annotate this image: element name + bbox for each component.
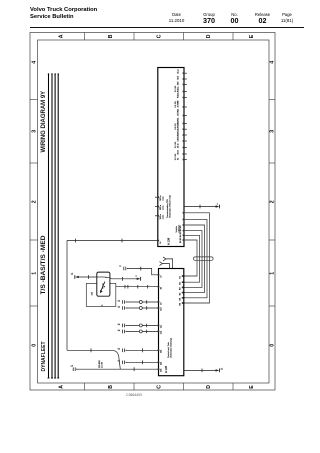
svg-text:E: E — [249, 34, 255, 38]
svg-text:30-fe: 30-fe — [178, 149, 180, 155]
svg-text:110: 110 — [160, 307, 162, 311]
pin left 8 of A135 — [158, 361, 163, 365]
svg-text:31: 31 — [178, 157, 180, 160]
pin left 4 of A135 — [158, 307, 163, 311]
pin left ant2 of A138 — [155, 204, 164, 210]
svg-text:15: 15 — [71, 273, 74, 275]
arrow terminal 1 — [216, 203, 220, 208]
pin 2 of A138 with label 504 — [178, 75, 187, 80]
label A135 — [164, 365, 168, 373]
inline connector twisted pair B2 — [118, 330, 127, 334]
svg-text:111: 111 — [160, 324, 162, 328]
svg-text:0.5 GN: 0.5 GN — [175, 141, 177, 148]
pin left ant1 of A138 — [155, 195, 164, 201]
svg-text:D: D — [206, 385, 212, 389]
wire harness bus 3 — [54, 73, 56, 378]
svg-text:bb: bb — [118, 324, 121, 326]
svg-text:0.5 GN: 0.5 GN — [175, 123, 177, 130]
zone row numbers left 4 3 2 1 0 — [32, 61, 38, 347]
pin 6 of A138 with label J1708B — [175, 100, 187, 108]
wire to A135 pin 7 — [126, 348, 159, 352]
svg-text:15-fe: 15-fe — [178, 143, 180, 149]
pin 13 of A138 with label 30-fe — [178, 149, 187, 155]
svg-text:bb: bb — [118, 330, 121, 332]
svg-text:0.5 GN: 0.5 GN — [175, 153, 177, 160]
pin left 3 of A135 — [158, 301, 163, 305]
wire relay K1 output to arrow — [111, 277, 138, 281]
pin 7 of A138 with label J1708A — [177, 108, 187, 116]
svg-text:T/S -BAS/T/S -MED: T/S -BAS/T/S -MED — [40, 235, 47, 294]
pin left 9 of A135 — [158, 368, 163, 372]
wire antenna feed to A135 corner pin — [127, 267, 158, 275]
pin left 1 of A135 — [158, 274, 163, 278]
svg-text:J1708A: J1708A — [177, 108, 180, 116]
svg-text:coax: coax — [162, 206, 164, 210]
svg-text:19: 19 — [160, 302, 162, 305]
svg-text:4: 4 — [32, 61, 38, 64]
svg-text:A: A — [59, 34, 65, 38]
document number — [120, 393, 148, 397]
svg-text:1: 1 — [270, 272, 276, 275]
header Group column — [197, 12, 221, 17]
svg-text:(Telematics Vehicle Unit): (Telematics Vehicle Unit) — [169, 195, 172, 218]
svg-text:CAN/net: CAN/net — [177, 224, 180, 232]
svg-text:17: 17 — [160, 274, 162, 277]
svg-text:18: 18 — [160, 286, 162, 289]
svg-text:B6: B6 — [179, 302, 181, 305]
relay K1 box — [97, 272, 110, 296]
inline connector on ground wire B52 — [71, 366, 78, 371]
title WIRING DIAGRAM 9Y — [41, 91, 47, 153]
wire bundle 5 A138 to A135 — [183, 235, 200, 284]
pin right 4 of A135 — [179, 292, 183, 295]
wire twisted pair B1 to A135 — [126, 324, 159, 328]
header Page column — [275, 12, 299, 17]
svg-text:B3: B3 — [179, 287, 181, 290]
svg-text:bb: bb — [118, 306, 121, 308]
zone column letters top A B C D E — [59, 34, 256, 38]
svg-text:114: 114 — [160, 361, 162, 365]
header company name — [30, 7, 97, 22]
svg-text:C: C — [157, 34, 163, 38]
pin 10 of A138 with label CAN1L — [177, 128, 187, 136]
svg-text:0.5 GN: 0.5 GN — [175, 101, 177, 108]
svg-text:C: C — [157, 385, 163, 389]
svg-text:a4: a4 — [71, 366, 74, 368]
svg-text:231: 231 — [92, 291, 94, 295]
pin 8 of A138 with label CAN2L — [177, 117, 187, 125]
svg-text:B2: B2 — [179, 281, 181, 284]
svg-text:RaDa-: RaDa- — [178, 86, 180, 92]
svg-text:cc: cc — [119, 266, 121, 268]
inline connector twisted pair B1 — [118, 324, 127, 328]
inline connector twisted pair A1 — [118, 300, 127, 304]
svg-text:3: 3 — [32, 130, 38, 133]
pin 12 of A138 with label 15-fe — [175, 141, 187, 148]
wire from A138 pin to arrow terminal 1 — [184, 205, 217, 209]
header Release column — [251, 12, 275, 17]
antenna W2 symbol — [163, 257, 173, 269]
wire arrow to relay K1 — [79, 275, 97, 279]
wire from A135 to arrow terminal 21 — [184, 369, 217, 373]
svg-text:A 135: A 135 — [164, 365, 168, 373]
pin right 1 of A135 — [179, 275, 183, 278]
header Date column — [165, 12, 189, 17]
header No column — [223, 12, 247, 17]
svg-text:CAN1H: CAN1H — [177, 134, 180, 142]
connector housing box 231 — [86, 283, 116, 306]
svg-text:0: 0 — [32, 344, 38, 347]
relay K1 internals — [97, 277, 112, 294]
svg-text:113: 113 — [160, 349, 162, 353]
arrow terminal 21 — [216, 368, 224, 372]
zone column letters bottom A B C D E — [59, 385, 256, 389]
pin right 3 of A135 — [179, 287, 183, 290]
control unit A135 box — [159, 269, 184, 376]
svg-text:bb: bb — [118, 300, 121, 302]
pin left 7 of A135 — [158, 349, 163, 353]
wire bundle 1 A138 to A135 — [183, 212, 210, 304]
svg-text:RaDa+: RaDa+ — [178, 91, 180, 98]
pin 3 of A138 with label 505 — [178, 81, 187, 86]
wire twisted pair B2 to A135 — [126, 330, 159, 334]
pin 14 of A138 with label 31 — [175, 153, 187, 160]
arrow terminal into relay — [71, 273, 79, 279]
svg-text:coax: coax — [162, 215, 164, 219]
wire harness bus 4 — [57, 73, 59, 378]
svg-text:(Telematics Gateway): (Telematics Gateway) — [169, 338, 172, 358]
svg-text:0: 0 — [270, 344, 276, 347]
svg-text:B: B — [108, 385, 114, 389]
svg-text:0.5 GN: 0.5 GN — [175, 85, 177, 92]
svg-text:4: 4 — [270, 61, 276, 64]
svg-text:1.5 SB: 1.5 SB — [102, 361, 104, 368]
svg-text:bb: bb — [118, 361, 121, 363]
pin left ant3 of A138 — [155, 213, 164, 219]
inline connector wire to A135 pin 8 — [118, 361, 127, 365]
svg-text:J1708B: J1708B — [178, 100, 180, 108]
svg-text:3: 3 — [270, 130, 276, 133]
wire harness bus 1 — [48, 73, 50, 378]
wire harness bus 2 — [51, 73, 53, 378]
svg-text:D: D — [206, 34, 212, 38]
inline connector twisted pair A2 — [118, 306, 127, 310]
title DYNAFLEET — [41, 342, 47, 372]
wire vertical drop from node — [66, 241, 68, 351]
wire housing 231 to A135 pin 2 — [116, 285, 159, 289]
pin 5 of A138 with label RaDa+ — [178, 91, 187, 99]
wire twisted pair A2 to A135 — [126, 306, 159, 310]
pin 11 of A138 with label CAN1H — [177, 134, 187, 142]
svg-text:B5: B5 — [179, 297, 181, 300]
wire bundle 2 A138 to A135 — [183, 219, 207, 299]
svg-text:CAN2H: CAN2H — [177, 122, 180, 130]
svg-text:bb: bb — [118, 349, 121, 351]
wire lower run with bend — [67, 348, 120, 369]
wire to A135 pin 8 — [126, 360, 159, 364]
control unit A138 box — [158, 68, 184, 247]
drawing frame outer border — [30, 33, 275, 391]
inline connector wire to A135 pin 7 — [118, 349, 127, 353]
svg-text:E: E — [249, 385, 255, 389]
svg-text:115: 115 — [160, 368, 162, 372]
svg-text:B: B — [108, 34, 114, 38]
pin right 6 of A135 — [179, 302, 183, 305]
pin 1 of A138 with label 31-A — [177, 69, 187, 74]
svg-text:WIRING DIAGRAM 9Y: WIRING DIAGRAM 9Y — [41, 91, 47, 153]
svg-text:CAN1L: CAN1L — [177, 128, 180, 136]
svg-text:14: 14 — [160, 241, 162, 244]
svg-text:112: 112 — [160, 330, 162, 334]
label inside A135 Control unit Telematics gateway — [167, 338, 172, 358]
pin left 2 of A135 — [158, 286, 163, 290]
pin right 2 of A135 — [179, 281, 183, 284]
arrow terminal relay output — [136, 275, 141, 280]
cable sleeve marker ellipse — [194, 257, 214, 260]
label connector X3 inside A138 — [176, 224, 180, 232]
zone row ticks — [30, 100, 275, 307]
title T/S -BAS/T/S -MED — [40, 235, 47, 294]
wire twisted pair A1 to A135 — [126, 300, 159, 304]
pin 9 of A138 with label CAN2H — [175, 122, 187, 130]
pin left 5 of A135 — [158, 324, 163, 328]
svg-text:A 138: A 138 — [167, 237, 171, 245]
pin 4 of A138 with label RaDa- — [175, 85, 187, 92]
svg-text:DYNAFLEET: DYNAFLEET — [41, 342, 47, 372]
wire node to A138 pin 14 — [67, 239, 158, 243]
pin left 6 of A135 — [158, 330, 163, 334]
label inside A138 Communication unit — [166, 195, 171, 218]
svg-text:B4: B4 — [179, 292, 181, 295]
wire bundle 6 A138 to A135 — [183, 239, 197, 277]
zone column ticks — [85, 33, 234, 391]
svg-text:B1: B1 — [179, 275, 181, 278]
antenna W3 symbol — [160, 262, 170, 269]
pin 14 of A138 bottom left — [157, 240, 162, 244]
svg-text:2: 2 — [270, 200, 276, 203]
svg-text:21: 21 — [221, 368, 224, 370]
svg-text:coax: coax — [162, 196, 164, 200]
header rule — [30, 27, 304, 29]
drawing frame inner border — [38, 40, 270, 383]
svg-text:1: 1 — [217, 203, 219, 205]
svg-text:2: 2 — [32, 200, 38, 203]
zone row numbers right 4 3 2 1 0 — [270, 61, 276, 347]
svg-text:1: 1 — [32, 272, 38, 275]
wire B52 ground run to A135 — [77, 359, 159, 371]
inline connector antenna feed wire — [119, 266, 128, 271]
label bundle pin numbers inside A138 — [180, 225, 182, 243]
svg-text:31-A: 31-A — [177, 69, 180, 74]
wire bundle 4 A138 to A135 — [183, 230, 202, 288]
svg-text:A: A — [59, 385, 65, 389]
svg-text:504: 504 — [178, 75, 180, 79]
svg-text:1: 1 — [136, 275, 138, 277]
pin right 5 of A135 — [179, 297, 183, 300]
label A138 — [167, 237, 171, 245]
wire bundle 3 A138 to A135 — [183, 224, 205, 293]
svg-text:505: 505 — [178, 81, 180, 85]
